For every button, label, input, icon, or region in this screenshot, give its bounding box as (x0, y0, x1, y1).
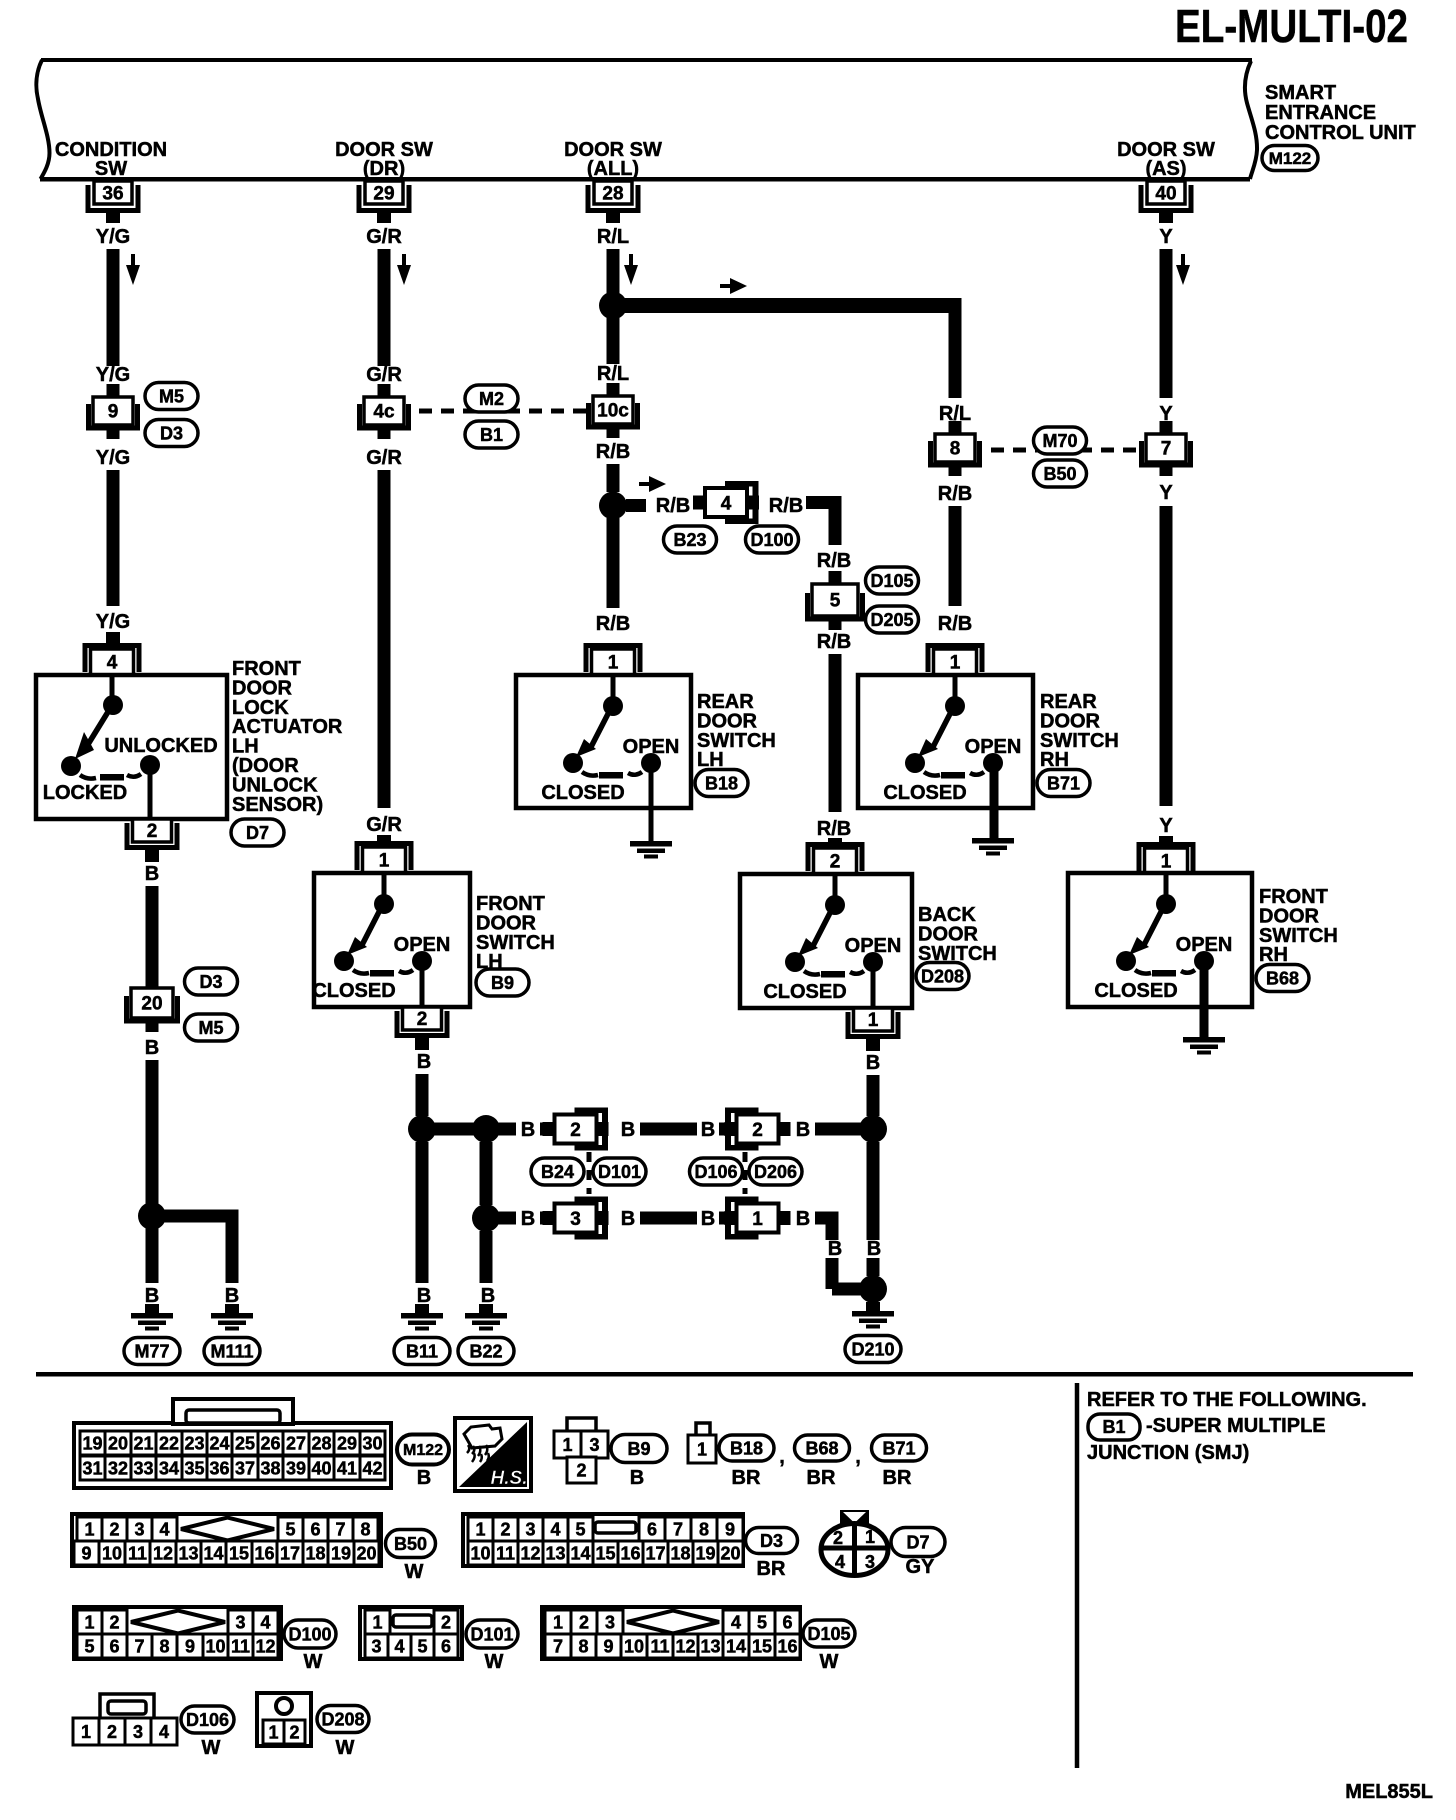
svg-text:SMART: SMART (1265, 82, 1336, 104)
svg-text:7: 7 (335, 1519, 345, 1539)
svg-text:D7: D7 (906, 1532, 929, 1552)
svg-text:B68: B68 (1266, 968, 1299, 988)
svg-text:B: B (417, 1051, 431, 1073)
svg-text:2: 2 (107, 1722, 117, 1742)
svg-text:6: 6 (109, 1636, 119, 1656)
svg-text:D3: D3 (160, 423, 183, 443)
svg-text:1: 1 (752, 1209, 763, 1230)
svg-text:1: 1 (865, 1527, 875, 1547)
svg-text:B23: B23 (673, 530, 706, 550)
svg-text:R/B: R/B (938, 613, 972, 635)
svg-text:17: 17 (280, 1543, 300, 1563)
svg-text:42: 42 (362, 1458, 382, 1478)
svg-text:10c: 10c (597, 401, 629, 422)
svg-text:D101: D101 (598, 1162, 641, 1182)
svg-text:B18: B18 (705, 773, 738, 793)
svg-text:37: 37 (235, 1458, 255, 1478)
svg-text:5: 5 (417, 1636, 427, 1656)
svg-text:11: 11 (128, 1543, 147, 1563)
svg-text:3: 3 (371, 1636, 381, 1656)
svg-text:34: 34 (159, 1458, 179, 1478)
svg-text:35: 35 (184, 1458, 204, 1478)
svg-text:31: 31 (82, 1458, 102, 1478)
svg-text:9: 9 (185, 1636, 195, 1656)
svg-text:B: B (145, 1285, 159, 1307)
svg-text:JUNCTION (SMJ): JUNCTION (SMJ) (1087, 1442, 1249, 1464)
svg-text:38: 38 (260, 1458, 280, 1478)
svg-text:2: 2 (147, 821, 158, 842)
svg-text:1: 1 (372, 1612, 382, 1632)
svg-text:M111: M111 (210, 1341, 253, 1361)
svg-text:1: 1 (1161, 852, 1172, 873)
svg-text:W: W (304, 1651, 323, 1673)
svg-text:D100: D100 (288, 1624, 331, 1644)
svg-text:20: 20 (720, 1543, 740, 1563)
svg-text:19: 19 (331, 1543, 351, 1563)
svg-text:OPEN: OPEN (394, 934, 451, 956)
svg-text:3: 3 (133, 1722, 143, 1742)
svg-text:4: 4 (721, 494, 732, 515)
svg-text:D105: D105 (807, 1624, 850, 1644)
svg-text:10: 10 (470, 1543, 490, 1563)
svg-text:5: 5 (830, 591, 841, 612)
svg-text:D208: D208 (921, 966, 964, 986)
svg-text:1: 1 (475, 1519, 485, 1539)
svg-text:B: B (630, 1467, 644, 1489)
svg-text:B1: B1 (1102, 1417, 1125, 1437)
svg-text:REFER TO THE FOLLOWING.: REFER TO THE FOLLOWING. (1087, 1389, 1367, 1411)
svg-text:B71: B71 (882, 1438, 915, 1458)
svg-text:R/B: R/B (938, 483, 972, 505)
svg-text:2: 2 (441, 1612, 451, 1632)
svg-text:M122: M122 (1269, 149, 1312, 168)
svg-text:-SUPER MULTIPLE: -SUPER MULTIPLE (1146, 1415, 1326, 1437)
svg-text:23: 23 (184, 1433, 204, 1453)
svg-text:11: 11 (231, 1636, 250, 1656)
svg-text:17: 17 (645, 1543, 665, 1563)
svg-text:2: 2 (500, 1519, 510, 1539)
svg-text:8: 8 (950, 439, 961, 460)
svg-text:G/R: G/R (366, 226, 402, 248)
svg-text:15: 15 (595, 1543, 615, 1563)
svg-text:CLOSED: CLOSED (541, 782, 624, 804)
svg-text:,: , (855, 1446, 861, 1468)
svg-text:15: 15 (229, 1543, 249, 1563)
svg-text:B22: B22 (469, 1341, 502, 1361)
svg-text:11: 11 (650, 1636, 669, 1656)
svg-text:18: 18 (670, 1543, 690, 1563)
svg-text:1: 1 (81, 1722, 91, 1742)
svg-text:7: 7 (673, 1519, 683, 1539)
svg-text:6: 6 (441, 1636, 451, 1656)
svg-text:7: 7 (553, 1636, 563, 1656)
svg-text:21: 21 (133, 1433, 153, 1453)
svg-text:3: 3 (235, 1612, 245, 1632)
svg-text:B24: B24 (541, 1162, 574, 1182)
svg-text:M77: M77 (134, 1341, 169, 1361)
svg-text:Y: Y (1159, 482, 1173, 504)
svg-text:4: 4 (107, 653, 118, 674)
svg-text:20: 20 (141, 994, 162, 1015)
svg-text:6: 6 (310, 1519, 320, 1539)
svg-text:D206: D206 (754, 1162, 797, 1182)
svg-text:2: 2 (833, 1528, 843, 1548)
svg-text:5: 5 (757, 1612, 767, 1632)
svg-text:G/R: G/R (366, 447, 402, 469)
svg-text:9: 9 (725, 1519, 735, 1539)
svg-text:CLOSED: CLOSED (1094, 980, 1177, 1002)
svg-text:10: 10 (624, 1636, 644, 1656)
svg-text:B1: B1 (480, 425, 503, 445)
svg-text:BR: BR (883, 1467, 912, 1489)
svg-text:2: 2 (289, 1722, 299, 1742)
svg-text:19: 19 (695, 1543, 715, 1563)
svg-text:B9: B9 (491, 973, 514, 993)
svg-text:MEL855L: MEL855L (1345, 1781, 1433, 1803)
svg-text:1: 1 (868, 1010, 879, 1031)
svg-text:1: 1 (379, 851, 390, 872)
svg-text:B: B (621, 1119, 635, 1141)
svg-text:2: 2 (576, 1460, 586, 1480)
svg-text:GY: GY (906, 1556, 936, 1578)
svg-text:LOCKED: LOCKED (43, 782, 127, 804)
svg-text:R/B: R/B (817, 631, 851, 653)
svg-text:11: 11 (496, 1543, 515, 1563)
svg-text:B: B (145, 863, 159, 885)
svg-text:BR: BR (732, 1467, 761, 1489)
svg-text:4: 4 (159, 1519, 169, 1539)
svg-text:M2: M2 (479, 389, 504, 409)
svg-text:EL-MULTI-02: EL-MULTI-02 (1175, 0, 1408, 52)
svg-text:B: B (225, 1285, 239, 1307)
svg-text:2: 2 (109, 1519, 119, 1539)
svg-text:(AS): (AS) (1145, 158, 1186, 180)
svg-text:SENSOR): SENSOR) (232, 794, 323, 816)
svg-text:16: 16 (777, 1636, 797, 1656)
svg-text:R/B: R/B (817, 550, 851, 572)
svg-text:12: 12 (255, 1636, 275, 1656)
svg-text:9: 9 (81, 1543, 91, 1563)
svg-text:1: 1 (84, 1519, 94, 1539)
svg-text:B: B (828, 1238, 842, 1260)
svg-text:2: 2 (570, 1120, 581, 1141)
svg-text:M5: M5 (198, 1018, 223, 1038)
svg-text:D100: D100 (750, 530, 793, 550)
svg-text:UNLOCKED: UNLOCKED (104, 735, 217, 757)
svg-text:D7: D7 (246, 823, 269, 843)
svg-text:4c: 4c (373, 402, 395, 423)
svg-text:27: 27 (286, 1433, 306, 1453)
svg-text:4: 4 (731, 1612, 741, 1632)
svg-text:32: 32 (108, 1458, 128, 1478)
svg-text:4: 4 (394, 1636, 404, 1656)
svg-text:H.S.: H.S. (491, 1468, 528, 1489)
svg-text:28: 28 (602, 184, 623, 205)
svg-text:B: B (521, 1119, 535, 1141)
svg-text:B: B (145, 1037, 159, 1059)
svg-text:16: 16 (254, 1543, 274, 1563)
svg-text:2: 2 (830, 852, 841, 873)
svg-text:B: B (417, 1285, 431, 1307)
svg-text:1: 1 (553, 1612, 563, 1632)
svg-text:ENTRANCE: ENTRANCE (1265, 102, 1376, 124)
svg-text:B18: B18 (730, 1438, 763, 1458)
svg-text:OPEN: OPEN (965, 736, 1022, 758)
svg-text:9: 9 (603, 1636, 613, 1656)
svg-text:1: 1 (950, 653, 961, 674)
svg-text:R/B: R/B (817, 818, 851, 840)
svg-text:OPEN: OPEN (1176, 934, 1233, 956)
svg-text:Y: Y (1159, 226, 1173, 248)
svg-text:B: B (701, 1119, 715, 1141)
svg-text:3: 3 (605, 1612, 615, 1632)
svg-text:(ALL): (ALL) (587, 158, 639, 180)
svg-text:8: 8 (699, 1519, 709, 1539)
svg-text:R/L: R/L (597, 363, 629, 385)
svg-text:D205: D205 (870, 610, 913, 630)
svg-text:W: W (202, 1737, 221, 1759)
svg-text:20: 20 (356, 1543, 376, 1563)
svg-text:7: 7 (1161, 439, 1172, 460)
svg-text:G/R: G/R (366, 814, 402, 836)
svg-text:R/B: R/B (596, 441, 630, 463)
svg-text:D101: D101 (470, 1624, 513, 1644)
svg-text:36: 36 (102, 184, 123, 205)
svg-text:2: 2 (579, 1612, 589, 1632)
svg-text:30: 30 (362, 1433, 382, 1453)
svg-text:R/L: R/L (597, 226, 629, 248)
svg-text:13: 13 (545, 1543, 565, 1563)
svg-text:5: 5 (84, 1636, 94, 1656)
svg-text:B9: B9 (627, 1439, 650, 1459)
svg-text:Y: Y (1159, 815, 1173, 837)
svg-text:10: 10 (205, 1636, 225, 1656)
svg-text:36: 36 (209, 1458, 229, 1478)
svg-text:D210: D210 (851, 1339, 894, 1359)
svg-text:15: 15 (752, 1636, 772, 1656)
svg-text:14: 14 (570, 1543, 590, 1563)
svg-text:B68: B68 (805, 1438, 838, 1458)
svg-text:9: 9 (108, 402, 119, 423)
svg-text:BR: BR (807, 1467, 836, 1489)
svg-text:BR: BR (757, 1558, 786, 1580)
svg-text:12: 12 (153, 1543, 173, 1563)
svg-text:R/B: R/B (769, 495, 803, 517)
svg-text:8: 8 (360, 1519, 370, 1539)
svg-text:1: 1 (608, 653, 619, 674)
svg-text:B11: B11 (406, 1341, 438, 1361)
svg-text:OPEN: OPEN (845, 935, 902, 957)
svg-text:24: 24 (209, 1433, 229, 1453)
svg-text:41: 41 (337, 1458, 357, 1478)
svg-text:3: 3 (134, 1519, 144, 1539)
svg-text:B: B (521, 1208, 535, 1230)
svg-text:5: 5 (285, 1519, 295, 1539)
svg-text:CLOSED: CLOSED (763, 981, 846, 1003)
svg-text:1: 1 (268, 1722, 278, 1742)
svg-text:B: B (866, 1052, 880, 1074)
svg-text:CLOSED: CLOSED (312, 980, 395, 1002)
svg-text:B50: B50 (394, 1534, 427, 1554)
svg-text:W: W (336, 1737, 355, 1759)
svg-text:6: 6 (647, 1519, 657, 1539)
svg-text:3: 3 (570, 1209, 581, 1230)
svg-text:M5: M5 (159, 386, 184, 406)
svg-text:5: 5 (575, 1519, 585, 1539)
svg-text:25: 25 (235, 1433, 255, 1453)
svg-text:B: B (867, 1238, 881, 1260)
svg-text:12: 12 (520, 1543, 540, 1563)
svg-text:14: 14 (203, 1543, 223, 1563)
svg-text:R/B: R/B (656, 495, 690, 517)
svg-text:39: 39 (286, 1458, 306, 1478)
svg-text:26: 26 (260, 1433, 280, 1453)
svg-text:Y/G: Y/G (96, 611, 130, 633)
svg-text:CLOSED: CLOSED (883, 782, 966, 804)
svg-text:14: 14 (726, 1636, 746, 1656)
svg-text:R/B: R/B (596, 613, 630, 635)
svg-text:28: 28 (311, 1433, 331, 1453)
svg-text:3: 3 (589, 1435, 599, 1455)
svg-text:6: 6 (782, 1612, 792, 1632)
svg-text:CONTROL UNIT: CONTROL UNIT (1265, 122, 1416, 144)
svg-text:W: W (820, 1651, 839, 1673)
svg-text:29: 29 (337, 1433, 357, 1453)
svg-text:OPEN: OPEN (623, 736, 680, 758)
svg-text:3: 3 (865, 1552, 875, 1572)
svg-text:13: 13 (178, 1543, 198, 1563)
svg-text:4: 4 (159, 1722, 169, 1742)
svg-text:1: 1 (84, 1612, 94, 1632)
svg-text:B: B (621, 1208, 635, 1230)
svg-text:40: 40 (311, 1458, 331, 1478)
svg-text:16: 16 (620, 1543, 640, 1563)
svg-text:M122: M122 (403, 1442, 443, 1459)
svg-text:B: B (481, 1285, 495, 1307)
svg-text:G/R: G/R (366, 364, 402, 386)
svg-text:10: 10 (102, 1543, 122, 1563)
svg-text:B: B (796, 1208, 810, 1230)
svg-text:,: , (779, 1446, 785, 1468)
svg-text:4: 4 (835, 1552, 845, 1572)
svg-text:D106: D106 (694, 1162, 737, 1182)
svg-text:7: 7 (134, 1636, 144, 1656)
svg-text:B: B (417, 1467, 431, 1489)
svg-text:B: B (796, 1119, 810, 1141)
svg-text:3: 3 (525, 1519, 535, 1539)
svg-text:B71: B71 (1047, 773, 1080, 793)
svg-text:D105: D105 (870, 571, 913, 591)
svg-text:1: 1 (562, 1435, 572, 1455)
svg-text:D106: D106 (186, 1710, 229, 1730)
svg-text:Y/G: Y/G (96, 447, 130, 469)
svg-text:2: 2 (752, 1120, 763, 1141)
svg-text:SW: SW (95, 158, 127, 180)
svg-text:(DR): (DR) (363, 158, 405, 180)
svg-text:8: 8 (159, 1636, 169, 1656)
svg-text:2: 2 (109, 1612, 119, 1632)
svg-text:1: 1 (697, 1439, 707, 1459)
svg-text:4: 4 (550, 1519, 560, 1539)
svg-text:D3: D3 (760, 1531, 783, 1551)
svg-text:33: 33 (133, 1458, 153, 1478)
svg-text:B50: B50 (1043, 464, 1076, 484)
svg-text:D208: D208 (321, 1709, 364, 1729)
svg-text:D3: D3 (199, 972, 222, 992)
svg-text:19: 19 (82, 1433, 102, 1453)
svg-text:18: 18 (305, 1543, 325, 1563)
svg-text:B: B (701, 1208, 715, 1230)
svg-text:29: 29 (373, 184, 394, 205)
svg-text:22: 22 (159, 1433, 179, 1453)
svg-text:Y/G: Y/G (96, 364, 130, 386)
svg-text:M70: M70 (1042, 431, 1077, 451)
svg-text:40: 40 (1155, 184, 1176, 205)
svg-text:W: W (405, 1561, 424, 1583)
svg-text:4: 4 (260, 1612, 270, 1632)
svg-text:20: 20 (108, 1433, 128, 1453)
svg-text:13: 13 (700, 1636, 720, 1656)
svg-text:Y/G: Y/G (96, 226, 130, 248)
svg-text:W: W (485, 1651, 504, 1673)
svg-text:12: 12 (675, 1636, 695, 1656)
svg-text:8: 8 (578, 1636, 588, 1656)
svg-text:2: 2 (417, 1009, 428, 1030)
